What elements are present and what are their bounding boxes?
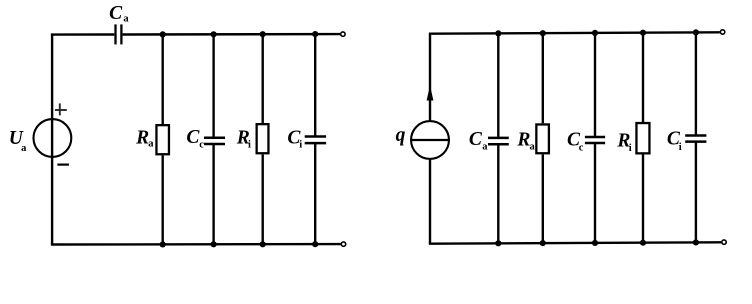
current source q xyxy=(411,121,450,159)
terminal: right circuit top output xyxy=(720,30,724,34)
node: right circuit bottom rail junction 4 xyxy=(640,240,646,246)
wire: C_c branch top (right circuit) xyxy=(594,33,596,137)
wire: left circuit top rail, source side segment xyxy=(51,33,114,35)
node: left circuit top rail junction 2 xyxy=(211,31,217,37)
label R_a (right circuit) xyxy=(516,129,535,152)
svg-text:c: c xyxy=(579,142,584,153)
wire: C_a branch bottom (right circuit) xyxy=(497,144,499,243)
wire: right circuit left vertical lower xyxy=(429,160,431,244)
terminal: right circuit bottom output xyxy=(722,240,726,244)
svg-text:C: C xyxy=(186,127,200,148)
resistor R_i (left circuit) xyxy=(257,124,269,153)
wire: C_i branch bottom (left circuit) xyxy=(314,143,316,244)
node: left circuit top rail junction 3 xyxy=(260,31,266,37)
wire: C_c branch bottom (right circuit) xyxy=(594,143,596,243)
wire: R_a branch bottom (left circuit) xyxy=(161,156,163,245)
wire: R_i branch top (left circuit) xyxy=(262,34,264,123)
svg-text:i: i xyxy=(299,140,302,151)
label C_c (left circuit) xyxy=(186,127,204,151)
capacitor C_i (left circuit) xyxy=(305,137,326,144)
capacitor C_a (right circuit) xyxy=(488,138,509,144)
wire: R_i branch bottom (right circuit) xyxy=(642,155,644,243)
node: right circuit top rail junction 4 xyxy=(640,30,646,36)
svg-text:a: a xyxy=(123,13,129,24)
capacitor C_a (series, left circuit) xyxy=(116,24,122,44)
wire: left circuit top rail, load side segment xyxy=(123,33,341,36)
node: right circuit bottom rail junction 3 xyxy=(592,240,598,246)
label R_a (left circuit) xyxy=(135,128,154,150)
wire: C_c branch top (left circuit) xyxy=(212,34,214,137)
current direction arrow xyxy=(427,85,434,100)
node: right circuit top rail junction 2 xyxy=(540,30,546,36)
node: left circuit bottom rail junction 1 xyxy=(160,241,166,247)
label C_c (right circuit) xyxy=(567,130,584,154)
node: right circuit bottom rail junction 5 xyxy=(693,239,699,245)
wire: left circuit bottom rail xyxy=(51,243,341,246)
wire: R_i branch top (right circuit) xyxy=(642,33,644,122)
wire: C_i branch top (right circuit) xyxy=(695,32,697,135)
label U_a xyxy=(9,128,27,154)
wire: R_i branch bottom (left circuit) xyxy=(262,155,264,245)
node: right circuit bottom rail junction 2 xyxy=(540,240,546,246)
node: right circuit top rail junction 3 xyxy=(592,30,598,36)
label C_a (left circuit) xyxy=(109,3,129,24)
svg-text:a: a xyxy=(21,143,27,154)
capacitor C_i (right circuit) xyxy=(685,136,706,142)
svg-text:R: R xyxy=(135,128,149,149)
capacitor C_c (right circuit) xyxy=(585,137,605,143)
label R_i (left circuit) xyxy=(236,128,251,151)
wire: right circuit left vertical upper xyxy=(429,34,431,120)
voltage source U_a xyxy=(34,119,72,157)
wire: R_a branch top (left circuit) xyxy=(161,34,163,124)
node: right circuit top rail junction 5 xyxy=(693,29,699,35)
wire: right circuit top rail xyxy=(429,32,720,33)
svg-text:C: C xyxy=(109,3,123,24)
svg-text:c: c xyxy=(199,140,204,151)
node: left circuit bottom rail junction 3 xyxy=(260,241,266,247)
label C_i (left circuit) xyxy=(287,128,302,151)
wire: right circuit bottom rail xyxy=(429,242,721,243)
terminal: left circuit top output xyxy=(341,32,345,36)
node: left circuit bottom rail junction 4 xyxy=(312,241,318,247)
wire: C_i branch bottom (right circuit) xyxy=(695,142,697,243)
node: left circuit bottom rail junction 2 xyxy=(211,241,217,247)
polarity plus sign xyxy=(55,103,67,115)
wire: R_a branch bottom (right circuit) xyxy=(542,155,544,244)
label C_i (right circuit) xyxy=(667,129,682,153)
svg-text:a: a xyxy=(482,142,488,153)
label q xyxy=(396,125,406,146)
svg-text:q: q xyxy=(396,125,406,146)
label C_a (right circuit) xyxy=(469,129,488,153)
svg-text:R: R xyxy=(516,129,530,150)
wire: C_c branch bottom (left circuit) xyxy=(212,144,214,244)
svg-text:a: a xyxy=(148,139,154,150)
resistor R_a (right circuit) xyxy=(536,124,549,153)
label R_i (right circuit) xyxy=(616,131,631,155)
svg-text:i: i xyxy=(248,140,251,151)
wire: left circuit left vertical xyxy=(51,35,53,245)
wire: C_i branch top (left circuit) xyxy=(314,34,316,136)
node: right circuit bottom rail junction 1 xyxy=(495,240,501,246)
node: right circuit top rail junction 1 xyxy=(495,30,501,36)
svg-text:C: C xyxy=(469,129,483,150)
terminal: left circuit bottom output xyxy=(341,242,345,246)
resistor R_i (right circuit) xyxy=(636,123,649,153)
wire: R_a branch top (right circuit) xyxy=(542,33,544,123)
polarity minus sign xyxy=(57,164,69,166)
node: left circuit top rail junction 4 xyxy=(312,31,318,37)
wire: C_a branch top (right circuit) xyxy=(497,33,499,137)
resistor R_a (left circuit) xyxy=(156,125,169,154)
svg-text:i: i xyxy=(679,142,682,153)
node: left circuit top rail junction 1 xyxy=(160,31,166,37)
svg-text:a: a xyxy=(530,142,536,153)
capacitor C_c (left circuit) xyxy=(204,138,225,144)
svg-text:i: i xyxy=(629,143,632,154)
